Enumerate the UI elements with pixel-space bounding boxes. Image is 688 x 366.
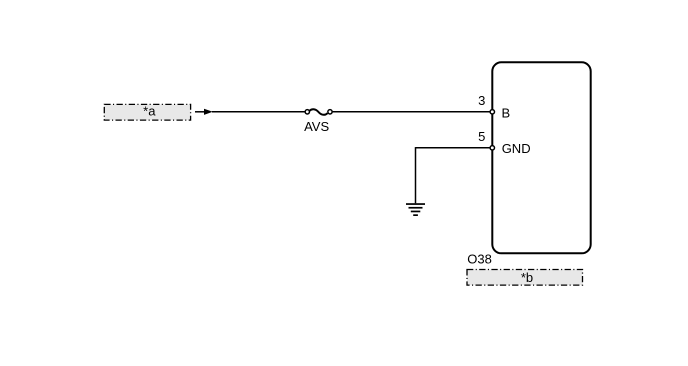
svg-text:*a: *a — [143, 103, 156, 118]
svg-text:B: B — [502, 105, 511, 120]
svg-text:AVS: AVS — [304, 119, 329, 134]
svg-text:3: 3 — [478, 93, 485, 108]
svg-text:*b: *b — [521, 270, 533, 285]
svg-text:GND: GND — [502, 141, 531, 156]
svg-text:O38: O38 — [467, 251, 492, 266]
svg-text:5: 5 — [478, 129, 485, 144]
